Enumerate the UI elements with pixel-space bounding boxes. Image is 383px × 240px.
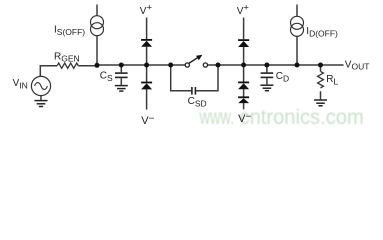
svg-text:VOUT: VOUT bbox=[345, 60, 370, 72]
svg-text:VIN: VIN bbox=[13, 78, 28, 91]
svg-text:cntronics.com: cntronics.com bbox=[240, 105, 364, 129]
svg-text:CSD: CSD bbox=[188, 96, 207, 109]
svg-text:RL: RL bbox=[326, 74, 338, 87]
svg-text:RGEN: RGEN bbox=[54, 52, 80, 64]
svg-text:ID(OFF): ID(OFF) bbox=[306, 26, 338, 39]
svg-text:CS: CS bbox=[100, 71, 113, 84]
svg-text:IS(OFF): IS(OFF) bbox=[54, 25, 85, 38]
svg-text:CD: CD bbox=[276, 71, 289, 84]
